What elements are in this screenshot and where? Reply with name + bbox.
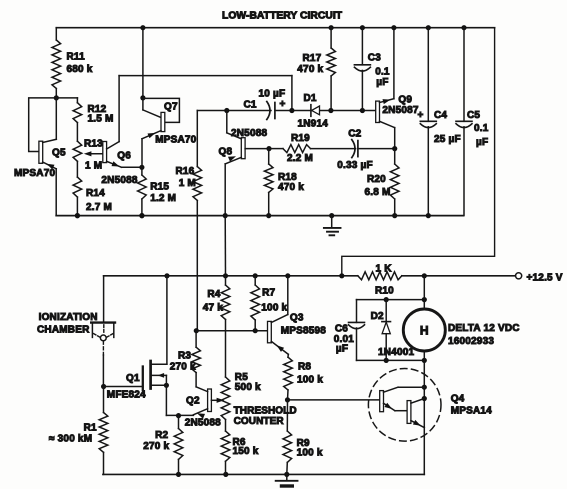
svg-text:C2: C2 — [348, 128, 361, 139]
svg-text:µF: µF — [336, 344, 348, 355]
svg-text:1 K: 1 K — [376, 264, 393, 275]
svg-text:0.33 µF: 0.33 µF — [337, 160, 373, 171]
svg-text:R20: R20 — [367, 174, 386, 185]
svg-text:Q9: Q9 — [398, 94, 412, 105]
svg-text:R15: R15 — [150, 181, 169, 192]
svg-text:+: + — [280, 99, 286, 110]
svg-text:150 k: 150 k — [233, 446, 259, 457]
svg-text:270 k: 270 k — [143, 441, 169, 452]
svg-text:1N914: 1N914 — [298, 119, 329, 130]
svg-text:THRESHOLD: THRESHOLD — [234, 406, 297, 417]
svg-text:C4: C4 — [434, 110, 447, 121]
svg-text:R11: R11 — [67, 52, 86, 63]
svg-text:Q3: Q3 — [290, 312, 304, 323]
svg-text:270 k: 270 k — [170, 362, 196, 373]
svg-text:C1: C1 — [244, 100, 257, 111]
svg-text:6.8 M: 6.8 M — [365, 187, 391, 198]
svg-text:2N5088: 2N5088 — [101, 175, 137, 186]
svg-text:47 k: 47 k — [203, 303, 224, 314]
svg-text:25 µF: 25 µF — [434, 134, 461, 145]
svg-text:1 M: 1 M — [179, 178, 196, 189]
svg-text:1 M: 1 M — [85, 161, 102, 172]
svg-text:µF: µF — [476, 137, 488, 148]
svg-text:MPSA14: MPSA14 — [451, 406, 492, 417]
svg-text:Q1: Q1 — [126, 373, 140, 384]
svg-text:100 k: 100 k — [297, 447, 323, 458]
svg-text:1N4001: 1N4001 — [378, 347, 414, 358]
svg-text:R16: R16 — [176, 166, 195, 177]
svg-text:R3: R3 — [178, 351, 191, 362]
svg-text:2.2 M: 2.2 M — [287, 153, 313, 164]
svg-text:≈ 300 kM: ≈ 300 kM — [49, 433, 92, 444]
svg-text:Q7: Q7 — [164, 102, 178, 113]
svg-text:CHAMBER: CHAMBER — [37, 325, 90, 336]
svg-text:Q4: Q4 — [451, 394, 465, 405]
svg-text:470 k: 470 k — [278, 182, 304, 193]
svg-text:R4: R4 — [207, 289, 220, 300]
svg-text:DELTA 12 VDC: DELTA 12 VDC — [448, 323, 520, 334]
svg-text:2N5088: 2N5088 — [231, 128, 267, 139]
svg-text:680 k: 680 k — [67, 64, 93, 75]
svg-text:0.1: 0.1 — [474, 123, 489, 134]
svg-text:R1: R1 — [84, 422, 97, 433]
svg-text:Q5: Q5 — [52, 148, 66, 159]
svg-text:0.1: 0.1 — [375, 67, 390, 78]
svg-text:COUNTER: COUNTER — [234, 416, 285, 427]
svg-text:C5: C5 — [467, 110, 480, 121]
svg-text:Q2: Q2 — [186, 396, 200, 407]
svg-text:H: H — [420, 324, 429, 338]
svg-text:+12.5 V: +12.5 V — [527, 273, 563, 284]
svg-text:R17: R17 — [303, 53, 322, 64]
svg-text:R19: R19 — [291, 133, 310, 144]
svg-text:D1: D1 — [304, 93, 317, 104]
svg-text:MPS8598: MPS8598 — [281, 326, 327, 337]
svg-text:2.7 M: 2.7 M — [86, 202, 112, 213]
svg-text:470 k: 470 k — [297, 64, 323, 75]
svg-text:R7: R7 — [262, 287, 275, 298]
svg-text:R8: R8 — [298, 361, 311, 372]
svg-text:Q8: Q8 — [219, 147, 233, 158]
svg-text:IONIZATION: IONIZATION — [39, 312, 98, 323]
svg-text:MFE824: MFE824 — [107, 390, 146, 401]
svg-text:D2: D2 — [371, 311, 384, 322]
svg-text:MPSA70: MPSA70 — [14, 168, 55, 179]
svg-text:R13: R13 — [84, 139, 103, 150]
svg-text:100 k: 100 k — [261, 303, 287, 314]
svg-text:R2: R2 — [155, 430, 168, 441]
svg-text:C3: C3 — [368, 53, 381, 64]
svg-text:500 k: 500 k — [235, 382, 261, 393]
svg-text:1.5 M: 1.5 M — [88, 113, 114, 124]
svg-text:10 µF: 10 µF — [259, 89, 286, 100]
svg-text:1.2 M: 1.2 M — [150, 193, 176, 204]
svg-text:2N5087: 2N5087 — [382, 105, 418, 116]
svg-text:µF: µF — [376, 77, 388, 88]
svg-text:LOW-BATTERY CIRCUIT: LOW-BATTERY CIRCUIT — [222, 11, 343, 22]
svg-text:MPSA70: MPSA70 — [155, 134, 196, 145]
svg-text:100 k: 100 k — [297, 375, 323, 386]
svg-text:R14: R14 — [86, 188, 105, 199]
svg-text:R10: R10 — [375, 286, 394, 297]
svg-text:16002933: 16002933 — [448, 336, 494, 347]
svg-text:Q6: Q6 — [117, 151, 131, 162]
svg-text:+: + — [418, 110, 424, 121]
svg-text:2N5088: 2N5088 — [185, 418, 221, 429]
